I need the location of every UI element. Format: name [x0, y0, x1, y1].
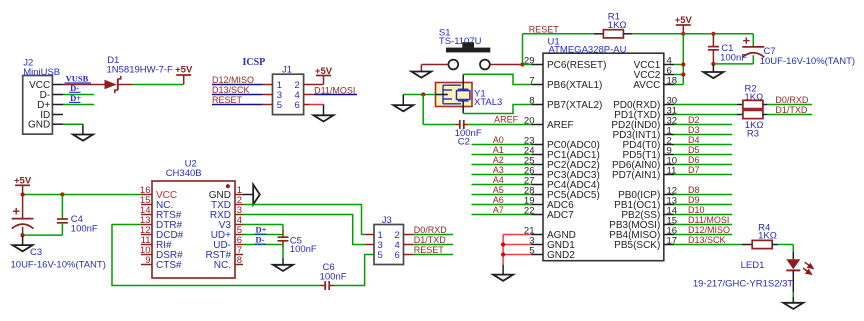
svg-text:D11/MOSI: D11/MOSI [688, 215, 729, 225]
svg-text:100nF: 100nF [71, 223, 98, 234]
svg-text:D12/MISO: D12/MISO [212, 75, 254, 85]
capacitor C6 100nF [324, 281, 326, 290]
svg-text:D5: D5 [688, 145, 700, 155]
wire J3 pin4 D1/TXD [404, 244, 414, 246]
svg-text:R3: R3 [747, 128, 759, 139]
wire J3 pin2 D0/RXD [404, 234, 414, 236]
junction +5V rail [681, 32, 685, 36]
wire J1 pin6 to ground [304, 104, 309, 106]
wire D9 net [674, 204, 732, 206]
svg-text:AVCC: AVCC [633, 80, 660, 91]
junction C4 top [60, 192, 64, 196]
svg-text:D+: D+ [256, 225, 267, 235]
svg-text:NC.: NC. [214, 260, 231, 271]
svg-text:1N5819HW-7-F: 1N5819HW-7-F [107, 64, 174, 75]
wire D- (J2) [63, 94, 94, 96]
svg-text:29: 29 [524, 56, 535, 67]
svg-text:PD7(AIN1): PD7(AIN1) [612, 170, 660, 181]
wire A4 net [472, 184, 532, 186]
resistor R1 1Kohm [594, 33, 604, 35]
svg-text:D1/TXD: D1/TXD [775, 105, 808, 115]
junction GND1 [501, 242, 505, 246]
svg-text:A4: A4 [493, 175, 504, 185]
svg-text:D-: D- [70, 83, 79, 93]
ground (C1) [712, 64, 714, 72]
wire VUSB net (J2 VCC to D1 anode) [63, 84, 109, 86]
svg-text:GND: GND [28, 120, 50, 131]
wire R2 to D0/RXD [763, 104, 768, 106]
svg-text:A1: A1 [493, 145, 504, 155]
wire crystal case to ground [402, 95, 404, 106]
svg-text:ATMEGA328P-AU: ATMEGA328P-AU [549, 45, 627, 56]
wire GND2 (U1 pin5) [503, 254, 531, 256]
wire A5 net [472, 194, 532, 196]
wire R1 to +5V rail [632, 33, 683, 35]
capacitor C7 10UF tantalum [752, 34, 754, 47]
svg-text:+5V: +5V [14, 175, 32, 186]
svg-text:A3: A3 [493, 165, 504, 175]
wire RESET net vertical [522, 34, 524, 65]
diode D1 1N5819HW-7-F [105, 80, 117, 89]
pushbutton S1 TS-1107U [446, 48, 490, 53]
capacitor C1 100nF [712, 34, 714, 47]
crystal Y1 XTAL3 [436, 83, 473, 107]
svg-text:D3: D3 [688, 125, 700, 135]
junction VCC2 [681, 72, 685, 76]
ground (S1) [411, 72, 431, 78]
svg-text:D2: D2 [688, 115, 700, 125]
ground (U1) [502, 265, 504, 275]
wire D11/MOSI net [674, 224, 732, 226]
capacitor C2 100nF (AREF) [423, 124, 455, 126]
svg-text:LED1: LED1 [741, 260, 765, 271]
svg-text:100nF: 100nF [320, 271, 347, 282]
wire +5V vertical rail [682, 34, 684, 85]
svg-text:19-217/GHC-YR1S2/3T: 19-217/GHC-YR1S2/3T [693, 279, 794, 290]
svg-text:PC6(RESET): PC6(RESET) [547, 60, 606, 71]
wire D10 net [674, 214, 732, 216]
wire U2 GND to ground arrow [243, 194, 253, 196]
wire junction to U1 pin29 [523, 64, 532, 66]
svg-text:XTAL3: XTAL3 [474, 97, 502, 108]
junction C1 top [711, 32, 715, 36]
wire A1 net [472, 154, 532, 156]
svg-text:D9: D9 [688, 195, 700, 205]
ground (C3) [22, 235, 24, 245]
svg-text:PB7(XTAL2): PB7(XTAL2) [547, 100, 602, 111]
wire U2 RXD to J3 pin3 [243, 215, 365, 245]
svg-text:D-: D- [256, 235, 265, 245]
ground (crystal) [393, 105, 413, 111]
wire U2 UD- (D-) [243, 244, 284, 246]
wire +5V to U2 VCC [23, 194, 141, 196]
wire D4 net [674, 144, 732, 146]
wire S1 left to ground [421, 64, 448, 66]
svg-text:5: 5 [378, 250, 383, 261]
junction crystal/AREF [421, 92, 425, 96]
svg-text:PB5(SCK): PB5(SCK) [614, 240, 660, 251]
wire J2 GND to ground [63, 123, 83, 125]
power +5V (J1) [316, 75, 331, 77]
wire VCC1 to +5V vertical [674, 64, 683, 66]
svg-text:D13/SCK: D13/SCK [688, 235, 726, 245]
wire A2 net [472, 164, 532, 166]
header J3 [374, 225, 404, 265]
svg-text:1KΩ: 1KΩ [608, 20, 627, 31]
LED LED1 [792, 252, 794, 259]
junction GND2 [501, 252, 505, 256]
svg-text:J1: J1 [282, 65, 292, 76]
svg-text:A6: A6 [493, 195, 504, 205]
wire D2 net [674, 124, 732, 126]
svg-text:MiniUSB: MiniUSB [23, 67, 60, 78]
resistor R3 1Kohm [743, 110, 763, 118]
wire VCC2 to +5V vertical [674, 74, 683, 76]
junction RESET/S1/pin29 [520, 62, 524, 66]
svg-text:TS-1107U: TS-1107U [439, 36, 482, 47]
wire C4 bottom to C3 bottom [23, 234, 63, 236]
svg-text:D7: D7 [688, 165, 700, 175]
svg-text:+5V: +5V [675, 15, 693, 26]
svg-text:D+: D+ [70, 93, 81, 103]
wire XTAL1 (crystal top to U1 pin7) [463, 74, 531, 84]
svg-text:1KΩ: 1KΩ [758, 231, 777, 242]
wire D12/MISO to J1 pin1 [212, 84, 263, 86]
wire U2 DTR# to C6 to J3 pin5 [112, 225, 321, 286]
wire A7 net [472, 214, 532, 216]
wire J1 pin4 D11/MOSI [304, 94, 314, 96]
svg-text:GND2: GND2 [547, 250, 575, 261]
wire D3 net [674, 134, 732, 136]
svg-text:AREF: AREF [547, 120, 574, 131]
wire LED1 cathode to ground [792, 292, 794, 297]
wire +5V rail to C7 [683, 33, 753, 35]
svg-text:RESET: RESET [529, 25, 560, 35]
capacitor C3 10UF tantalum [22, 195, 24, 219]
capacitor C5 100nF [282, 230, 284, 237]
junction C3 top [21, 192, 25, 196]
wire A3 net [472, 174, 532, 176]
wire D7 net [674, 174, 732, 176]
wire RESET to J1 pin5 [212, 104, 263, 106]
wire C7 bottom to C1 bottom [713, 63, 753, 65]
wire C6 to J3 pin5 [329, 285, 334, 287]
wire D6 net [674, 164, 732, 166]
svg-text:D13/SCK: D13/SCK [212, 85, 250, 95]
svg-text:D12/MISO: D12/MISO [688, 225, 730, 235]
svg-text:A0: A0 [493, 135, 504, 145]
power +5V (main) [676, 24, 691, 26]
IC U2 CH340B [152, 181, 235, 278]
junction VCC1 [681, 62, 685, 66]
header J1 [273, 74, 304, 114]
svg-text:RESET: RESET [414, 245, 445, 255]
IC U1 ATMEGA328P-AU [543, 53, 664, 261]
svg-text:D4: D4 [688, 135, 700, 145]
svg-text:8: 8 [237, 255, 242, 266]
ground (J1 pin6) [314, 115, 334, 121]
wire A6 net [472, 204, 532, 206]
svg-text:VUSB: VUSB [66, 73, 89, 83]
wire crystal left to junction [403, 94, 435, 96]
svg-text:10UF-16V-10%(TANT): 10UF-16V-10%(TANT) [11, 259, 106, 270]
wire D12/MISO net [674, 234, 732, 236]
svg-text:CH340B: CH340B [166, 168, 202, 179]
svg-text:+5V: +5V [175, 64, 193, 75]
svg-text:6: 6 [295, 100, 300, 111]
svg-text:C3: C3 [30, 247, 42, 258]
wire D8 net [674, 194, 732, 196]
junction C1 bottom [711, 62, 715, 66]
svg-text:AREF: AREF [494, 114, 519, 124]
ground (U2 pin1, rotated) [253, 185, 260, 205]
svg-text:D6: D6 [688, 155, 700, 165]
ground (LED1) [783, 303, 803, 309]
wire U2 V3 to C5 [243, 224, 283, 226]
svg-text:A5: A5 [493, 185, 504, 195]
svg-text:A2: A2 [493, 155, 504, 165]
connector J2 MiniUSB [23, 76, 53, 135]
wire D+ (J2) [63, 104, 94, 106]
resistor R4 1Kohm [742, 244, 753, 246]
wire J3 pin3 stub [365, 244, 375, 246]
svg-text:CTS#: CTS# [156, 260, 182, 271]
wire J3 pin6 RESET [404, 254, 414, 256]
resistor R2 1Kohm [743, 100, 763, 108]
wire PD0 to R2 [674, 104, 737, 106]
capacitor C4 100nF [61, 195, 63, 220]
svg-text:PB6(XTAL1): PB6(XTAL1) [547, 80, 602, 91]
wire S1 right to RESET junction [490, 64, 523, 66]
svg-text:J3: J3 [382, 215, 392, 226]
wire D1 cathode to +5V [133, 84, 184, 86]
svg-text:D0/RXD: D0/RXD [414, 225, 448, 235]
svg-text:D11/MOSI: D11/MOSI [314, 85, 355, 95]
wire D13/SCK to J1 pin3 [212, 94, 263, 96]
wire GND1 (U1 pin3) [503, 244, 531, 246]
wire A0 net [472, 144, 532, 146]
svg-text:RESET: RESET [212, 95, 243, 105]
wire J1 pin2 to +5V [304, 84, 324, 86]
ground (J2) [73, 135, 93, 141]
svg-text:D0/RXD: D0/RXD [775, 95, 809, 105]
wire RESET net horizontal to R1 [523, 33, 594, 35]
wire R4 to LED1 [778, 244, 793, 246]
svg-text:ADC7: ADC7 [547, 210, 574, 221]
wire J3 pin1 stub [365, 234, 375, 236]
wire XTAL2 (crystal bottom to U1 pin8) [463, 105, 531, 114]
svg-text:10UF-16V-10%(TANT): 10UF-16V-10%(TANT) [760, 56, 855, 67]
svg-text:D10: D10 [688, 205, 705, 215]
wire R3 to D1/TXD [763, 114, 768, 116]
svg-text:6: 6 [395, 250, 400, 261]
svg-text:ICSP: ICSP [243, 57, 266, 68]
svg-text:100nF: 100nF [290, 244, 317, 255]
wire U2 TXD to J3 pin1 [243, 205, 365, 235]
svg-text:C2: C2 [458, 136, 470, 147]
svg-text:1KΩ: 1KΩ [745, 92, 764, 103]
svg-text:5: 5 [277, 100, 282, 111]
svg-text:A7: A7 [493, 205, 504, 215]
wire U2 UD+ (D+) [243, 234, 284, 236]
svg-text:+5V: +5V [315, 66, 333, 77]
wire D5 net [674, 154, 732, 156]
wire AVCC to +5V vertical [674, 84, 683, 86]
svg-text:D8: D8 [688, 185, 700, 195]
svg-text:100nF: 100nF [720, 52, 747, 63]
power +5V (U2) [15, 184, 30, 186]
wire PD1 to R3 [674, 114, 737, 116]
power +5V (after D1) [176, 74, 191, 76]
junction C3 bottom [21, 233, 25, 237]
svg-text:9: 9 [145, 255, 150, 266]
wire D13/SCK net [674, 244, 741, 246]
ground (C5) [282, 258, 284, 265]
svg-text:D1/TXD: D1/TXD [414, 235, 447, 245]
wire AGND (U1 pin21) [503, 234, 531, 236]
wire junction down to AREF line [422, 95, 424, 125]
